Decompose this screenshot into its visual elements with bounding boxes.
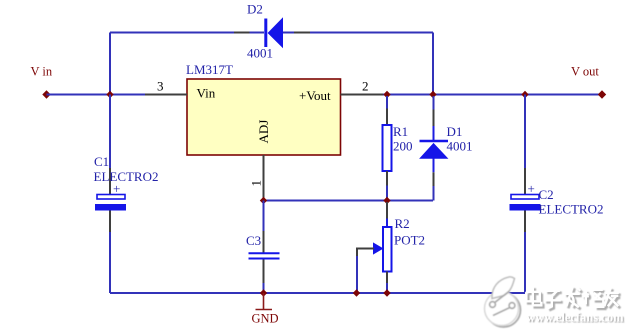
- junction ADJ node left: [260, 197, 267, 204]
- C3 bottom plate: [249, 258, 280, 260]
- watermark chinese text highlight layer: [526, 286, 619, 308]
- junction output-C2: [521, 91, 528, 98]
- R2 wiper pin corner: [356, 248, 358, 257]
- svg-text:R1: R1: [393, 124, 408, 139]
- C1 bottom pin: [109, 211, 111, 233]
- R2 wiper pin horizontal: [357, 248, 374, 250]
- wire ADJ horizontal: [264, 200, 434, 202]
- D2 left pin wire part: [250, 32, 265, 34]
- C3 top plate: [249, 252, 280, 254]
- D1 top wire part: [433, 96, 435, 110]
- C1 top plate: [97, 195, 125, 200]
- pin 3 of U1: [145, 79, 187, 95]
- R2 top pin inner part: [386, 219, 388, 228]
- C1 top wire: [109, 95, 111, 169]
- D1 triangle: [420, 144, 448, 159]
- svg-text:ADJ: ADJ: [256, 120, 271, 144]
- svg-text:2: 2: [362, 79, 369, 94]
- junction output-R1: [383, 91, 390, 98]
- GND bar: [256, 309, 273, 311]
- C2 bottom pin: [524, 211, 526, 233]
- C2 bottom wire: [524, 232, 526, 293]
- wire top loop left vertical: [109, 33, 111, 95]
- junction rail-R2: [383, 289, 390, 296]
- svg-text:V in: V in: [31, 65, 53, 79]
- capacitor C1: [94, 95, 159, 294]
- R2 wiper wire down: [356, 256, 358, 293]
- D2 right pin wire part: [283, 32, 294, 34]
- R1 top pin wire part: [386, 96, 388, 109]
- capacitor C2: [510, 95, 604, 294]
- D2 left pin: [234, 32, 250, 34]
- D1 bottom wire: [433, 186, 435, 201]
- wire Vin to pin3: [47, 94, 146, 96]
- watermark logo circle: [485, 277, 521, 327]
- GND stem: [263, 293, 265, 310]
- wire bottom rail: [110, 292, 525, 294]
- pin 2 of U1: [341, 79, 384, 95]
- capacitor C3: [246, 201, 280, 294]
- resistor R1: [383, 96, 413, 201]
- D2 right pin: [294, 32, 310, 34]
- watermark chinese text shadow layer: [528, 288, 621, 310]
- D1 bottom pin inner part: [433, 158, 435, 172]
- R2 bottom wire: [386, 283, 388, 293]
- watermark logo left ring: [490, 302, 496, 308]
- wire top loop horizontal left: [110, 32, 235, 34]
- D1 bottom pin: [433, 172, 435, 186]
- R2 top pin: [386, 202, 388, 219]
- svg-text:R2: R2: [395, 216, 410, 231]
- svg-text:GND: GND: [252, 312, 279, 326]
- R1 top pin: [386, 109, 388, 126]
- wire top loop horizontal right: [283, 32, 433, 34]
- C2 top pin: [524, 168, 526, 194]
- D2 cathode bar: [264, 19, 267, 48]
- svg-text:+Vout: +Vout: [299, 88, 331, 103]
- svg-text:200: 200: [393, 139, 413, 154]
- wire top loop right vertical: [432, 33, 434, 95]
- svg-text:1: 1: [249, 180, 264, 187]
- junction at input column: [106, 91, 113, 98]
- C1 bottom wire: [109, 232, 111, 293]
- svg-text:D2: D2: [247, 2, 263, 17]
- svg-text:4001: 4001: [247, 46, 273, 61]
- wire output rail: [383, 94, 602, 96]
- pin 1 of U1: [249, 155, 264, 199]
- svg-text:C3: C3: [246, 233, 261, 248]
- R1 bottom pin wire stub: [386, 186, 388, 201]
- D2 triangle: [268, 19, 282, 48]
- node Vout terminal: [598, 90, 606, 98]
- junction rail-wiper: [353, 289, 360, 296]
- svg-text:Vin: Vin: [197, 86, 216, 101]
- svg-text:D1: D1: [447, 124, 463, 139]
- svg-text:C1: C1: [94, 154, 109, 169]
- potentiometer R2: [357, 202, 425, 293]
- C2 top plate: [511, 195, 539, 200]
- C3 bottom wire: [263, 283, 265, 293]
- svg-text:C2: C2: [539, 187, 554, 202]
- D1 top pin inner part: [433, 126, 435, 140]
- D1 top pin: [433, 110, 435, 127]
- C3 bottom pin: [263, 260, 265, 284]
- diode D2: [234, 2, 310, 61]
- C3 top wire: [263, 201, 265, 232]
- R1 bottom pin: [386, 171, 388, 186]
- D1 cathode bar: [420, 140, 449, 142]
- C1 top pin: [109, 168, 111, 194]
- watermark logo teardrop: [492, 277, 515, 299]
- junction ADJ node right: [383, 197, 390, 204]
- C2 top wire: [524, 95, 526, 169]
- svg-text:LM317T: LM317T: [186, 62, 233, 77]
- svg-text:www.elecfans.com: www.elecfans.com: [526, 310, 624, 324]
- C2 bottom plate: [510, 204, 541, 211]
- C1 bottom plate: [95, 204, 126, 211]
- R2 bottom pin: [386, 272, 388, 284]
- R2 body: [383, 227, 392, 272]
- node Vin terminal: [42, 90, 50, 98]
- watermark logo stem lines: [495, 291, 510, 302]
- junction output-D1: [429, 91, 436, 98]
- op-amp-regulator U1 LM317T body: [186, 62, 341, 155]
- svg-text:V out: V out: [571, 65, 599, 79]
- R1 body: [383, 125, 392, 171]
- svg-text:POT2: POT2: [394, 233, 425, 248]
- svg-text:ELECTRO2: ELECTRO2: [539, 202, 604, 217]
- svg-text:3: 3: [157, 79, 164, 94]
- wire pin1 to junction: [263, 199, 265, 201]
- diode D1: [420, 96, 473, 201]
- C3 top pin: [263, 231, 265, 253]
- R2 wiper arrow head: [374, 243, 383, 254]
- svg-text:4001: 4001: [447, 139, 473, 154]
- watermark logo right ring: [509, 303, 515, 309]
- junction rail-GND: [260, 289, 267, 296]
- svg-text:ELECTRO2: ELECTRO2: [94, 169, 159, 184]
- ground symbol GND: [252, 293, 279, 326]
